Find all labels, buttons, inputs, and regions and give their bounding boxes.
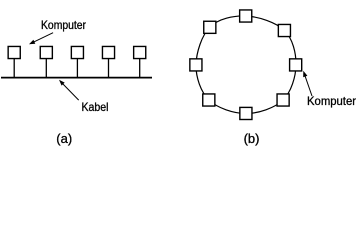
ring computer N box bbox=[240, 10, 252, 22]
ring computer NE box bbox=[278, 24, 290, 36]
drop wire computer 2 bbox=[45, 59, 47, 78]
ring cable (closed loop) bbox=[196, 16, 296, 114]
computer 2 box (bus) bbox=[40, 46, 52, 58]
arrow from Komputer label to computer 1 bbox=[31, 33, 54, 44]
svg-text:(a): (a) bbox=[56, 131, 72, 146]
arrow from Kabel label to bus line bbox=[61, 82, 79, 101]
bus cable (Kabel) horizontal line bbox=[1, 77, 152, 79]
ring computer S box bbox=[240, 107, 252, 119]
ring computer NW box bbox=[204, 21, 216, 33]
svg-text:Komputer: Komputer bbox=[307, 94, 356, 108]
ring computer E box bbox=[290, 59, 302, 71]
ring computer SE box bbox=[277, 94, 289, 106]
drop wire computer 5 bbox=[139, 59, 141, 78]
computer 1 box (bus) bbox=[8, 46, 20, 58]
computer 3 box (bus) bbox=[71, 46, 83, 58]
drop wire computer 4 bbox=[108, 59, 110, 78]
arrow from ring Komputer label to E computer bbox=[304, 74, 312, 96]
drop wire computer 3 bbox=[76, 59, 78, 78]
svg-text:Kabel: Kabel bbox=[82, 100, 109, 114]
ring computer W box bbox=[190, 59, 202, 71]
svg-text:(b): (b) bbox=[244, 131, 260, 146]
svg-text:Komputer: Komputer bbox=[41, 18, 86, 32]
computer 4 box (bus) bbox=[102, 46, 114, 58]
computer 5 box (bus) bbox=[134, 46, 146, 58]
drop wire computer 1 bbox=[13, 59, 15, 78]
ring computer SW box bbox=[203, 94, 215, 106]
